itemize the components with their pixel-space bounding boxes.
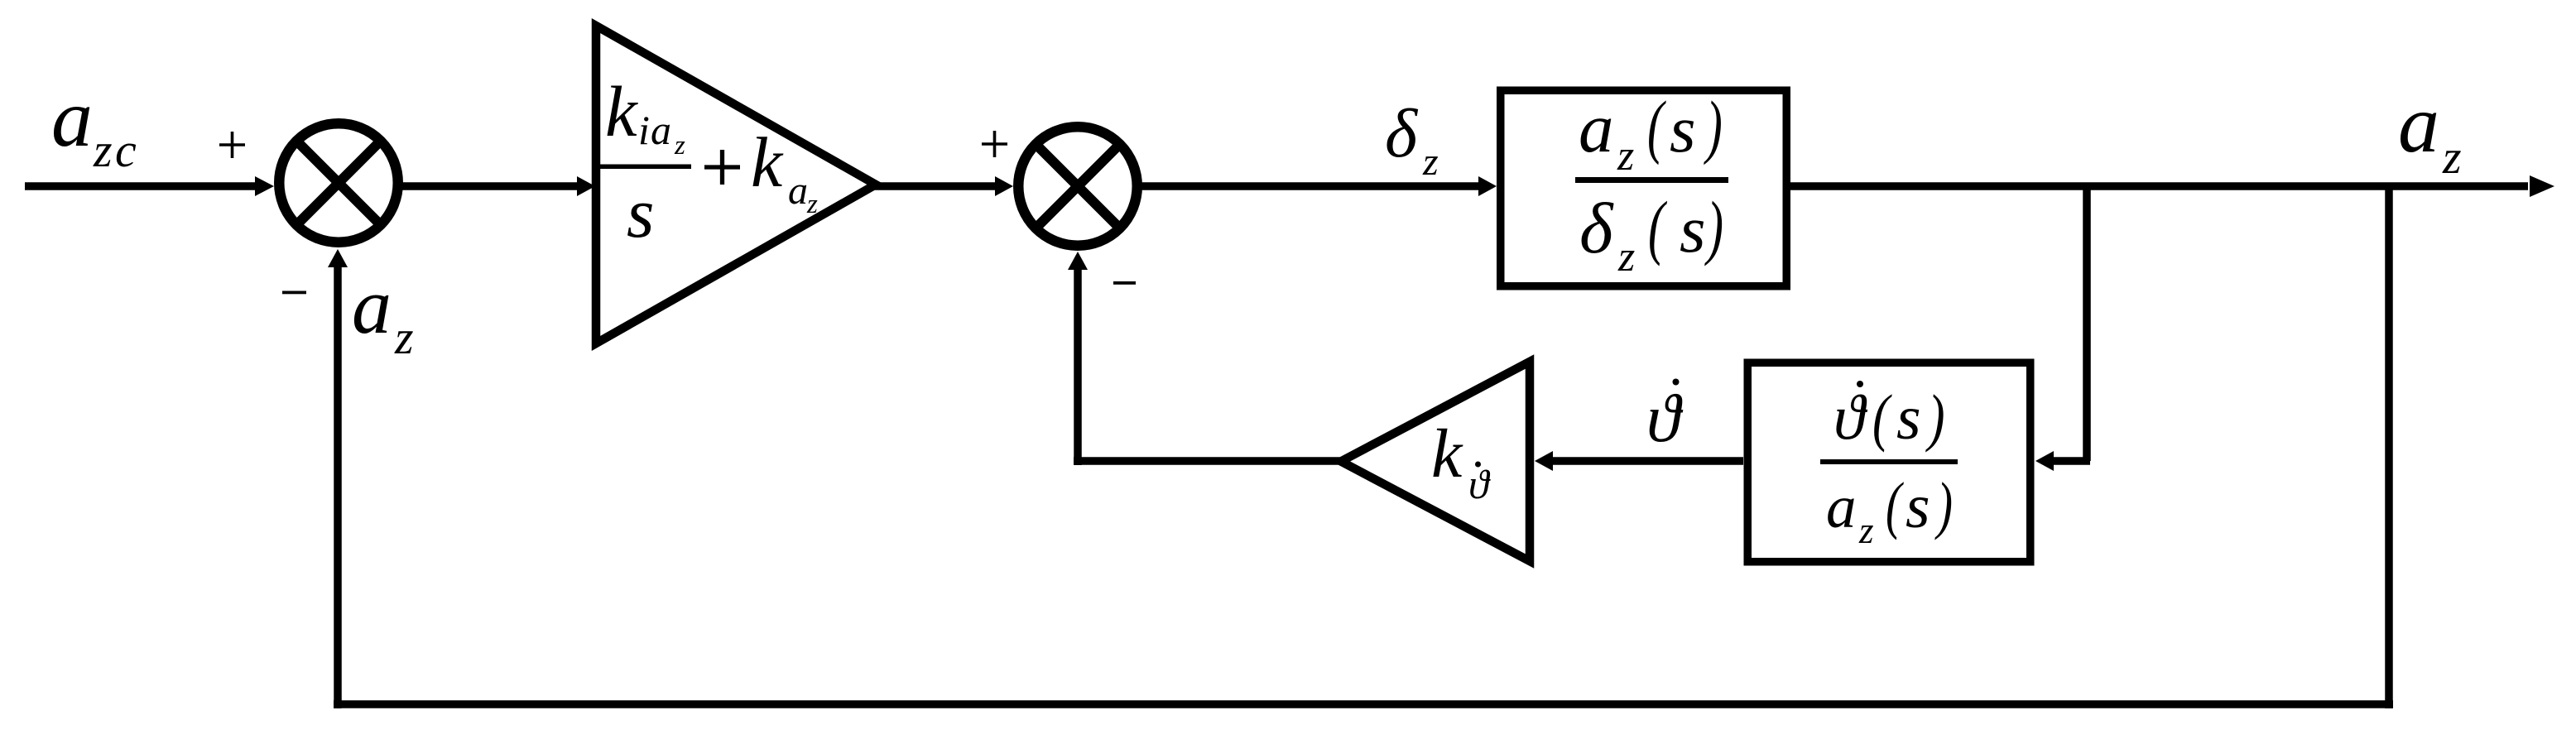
svg-text:δ: δ <box>1385 95 1419 172</box>
gain triangle G1 <box>596 26 876 343</box>
svg-text:k: k <box>605 71 638 151</box>
svg-text:a: a <box>1826 473 1857 540</box>
svg-text:a: a <box>651 107 671 153</box>
wire: riser up into S1 <box>334 265 342 708</box>
svg-text:z: z <box>1617 233 1635 281</box>
svg-text:k: k <box>751 122 784 202</box>
svg-text:c: c <box>115 123 137 177</box>
svg-text:s: s <box>1906 472 1930 541</box>
svg-text:a: a <box>2398 78 2439 170</box>
svg-text:a: a <box>352 262 392 350</box>
svg-text:s: s <box>1670 92 1696 166</box>
block B2: thetadot(s)/a_z(s) <box>1747 362 2031 562</box>
arrowhead into B1 <box>1478 176 1497 196</box>
wire: riser up into S2 <box>1074 265 1082 465</box>
svg-text:ϑ: ϑ <box>1833 382 1868 453</box>
wire: S2 to block B1 <box>1140 182 1482 190</box>
svg-text:z: z <box>1422 140 1439 184</box>
svg-text:ϑ: ϑ <box>1468 461 1491 507</box>
plus sign at S2 <box>982 131 1007 157</box>
wire: bottom feedback line <box>334 700 2393 708</box>
arrowhead into G2 <box>1535 451 1553 471</box>
svg-text:): ) <box>1704 86 1723 165</box>
svg-text:): ) <box>1925 383 1944 454</box>
svg-text:s: s <box>627 173 654 252</box>
wire: output takeoff down (main feedback) <box>2385 186 2393 708</box>
block B1: a_z(s)/delta_z(s) <box>1501 90 1787 286</box>
svg-text:z: z <box>1617 132 1634 180</box>
svg-text:z: z <box>674 131 685 161</box>
arrowhead into G1 <box>577 176 595 196</box>
svg-text:a: a <box>51 72 93 164</box>
B2 value <box>1820 381 1958 551</box>
wire: B1 to output a_z <box>1790 182 2528 190</box>
wire: S1 to gain triangle G1 <box>401 182 579 190</box>
svg-text:a: a <box>788 169 808 213</box>
svg-text:s: s <box>1680 192 1706 266</box>
svg-text:z: z <box>2442 130 2462 184</box>
arrowhead into S1 <box>255 176 274 196</box>
svg-text:z: z <box>394 310 414 364</box>
summing junction S2 <box>1018 127 1137 246</box>
minus sign at S2 <box>1113 281 1136 285</box>
svg-text:a: a <box>1579 89 1614 167</box>
output arrowhead <box>2530 175 2554 197</box>
svg-text:i: i <box>638 107 650 153</box>
minus sign at S1 <box>282 291 306 295</box>
svg-text:z: z <box>1858 510 1874 551</box>
arrowhead into B2 <box>2035 451 2054 471</box>
gain triangle G2: k_thetadot <box>1341 362 1530 561</box>
arrowhead up into S1 <box>328 249 348 267</box>
svg-text:(: ( <box>1872 383 1892 454</box>
svg-text:δ: δ <box>1579 188 1614 268</box>
svg-text:z: z <box>806 190 818 219</box>
svg-text:k: k <box>1431 415 1463 492</box>
summing junction S1 <box>279 123 398 242</box>
B1 value <box>1575 86 1728 281</box>
plus sign at S1 <box>219 132 245 158</box>
wire: B2 to gain triangle G2 <box>1550 457 1743 465</box>
wire: into B2 right side <box>2051 457 2090 465</box>
svg-text:z: z <box>93 123 113 177</box>
wire: G1 to summing junction S2 <box>872 182 997 190</box>
svg-text:ϑ: ϑ <box>1646 380 1684 456</box>
wire: input a_zc into summing junction S1 <box>25 182 255 190</box>
svg-text:s: s <box>1896 383 1921 453</box>
svg-text:): ) <box>1704 187 1723 267</box>
svg-text:): ) <box>1934 470 1953 540</box>
arrowhead into S2 <box>995 176 1013 196</box>
wire: takeoff junction down to block B2 <box>2083 186 2091 461</box>
svg-text:(: ( <box>1648 187 1667 267</box>
G1 value: k_ia_z over s, + k_a_z <box>597 71 818 252</box>
arrowhead up into S2 <box>1068 252 1088 270</box>
wire: G2 to S2 riser <box>1074 457 1341 465</box>
